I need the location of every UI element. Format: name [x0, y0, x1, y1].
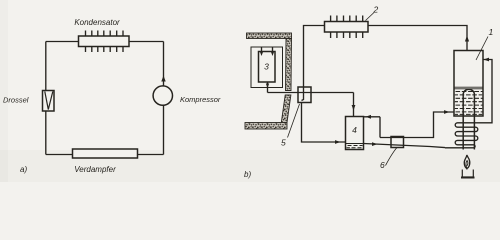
condenser (Kondensator)	[79, 31, 130, 53]
insulated wall right bar (upper, above pipe gap)	[286, 39, 292, 91]
label 5 with leader	[281, 104, 300, 148]
wire: trap 5 down and right into absorber 4 with right arrow	[302, 103, 346, 144]
arrow up on right wire	[161, 76, 165, 82]
wire: upper pipe through heat exchanger 6	[380, 112, 454, 138]
label 2 with leader	[366, 5, 379, 21]
arrow right into generator 1	[444, 110, 450, 114]
svg-text:Verdampfer: Verdampfer	[74, 165, 116, 174]
evaporator box 3	[259, 52, 276, 83]
wire: evaporator outlet to absorber (horizontal through wall and trap 5)	[268, 92, 354, 94]
svg-text:Drossel: Drossel	[3, 96, 29, 105]
pipe into box 3 (right) with down arrow	[271, 47, 274, 56]
insulated wall right bar (lower, below pipe gap)	[281, 95, 291, 123]
cold-box interior outline	[251, 47, 283, 88]
paper shading	[0, 150, 500, 182]
svg-text:1: 1	[489, 27, 494, 37]
wire: loop bottom side	[46, 154, 164, 156]
svg-text:a): a)	[20, 165, 27, 174]
throttle valve (Drossel)	[43, 91, 55, 112]
condenser 2	[325, 16, 369, 39]
compressor (Kompressor) circle	[153, 86, 172, 105]
generator box 1	[454, 51, 483, 117]
wire: loop left side	[45, 42, 47, 155]
svg-text:3: 3	[264, 62, 269, 72]
svg-text:b): b)	[244, 170, 251, 179]
absorber box 4	[346, 117, 364, 150]
wire: loop top side	[46, 41, 164, 43]
label 1 with leader	[476, 27, 494, 60]
pipe into box 3 (left) with down arrow	[260, 47, 263, 56]
wire: down into absorber 4 with down arrow	[352, 93, 356, 117]
arrow up on riser to condenser	[465, 36, 469, 42]
insulated wall top bar	[247, 33, 292, 39]
heat exchanger box 6	[391, 137, 404, 148]
svg-text:5: 5	[281, 138, 286, 148]
bubble pump tubes (inverted U)	[463, 89, 474, 149]
evaporator (Verdampfer)	[73, 149, 138, 158]
svg-text:Kondensator: Kondensator	[74, 18, 120, 27]
wire: lower pipe absorber to coil through heat exchanger 6	[364, 144, 446, 148]
svg-text:Kompressor: Kompressor	[180, 95, 221, 104]
pipe out of box 3 bottom with down arrow	[266, 82, 269, 93]
arrow right on lower pipe	[372, 142, 378, 146]
wire: coil top to generator right side with left arrow	[481, 58, 492, 123]
wire: loop right side	[163, 42, 165, 155]
insulated wall bottom bar	[245, 123, 287, 130]
wire: condenser right stub to riser	[368, 26, 467, 51]
wire: return line into absorber top with left arrow	[364, 115, 381, 138]
trap box 5	[298, 87, 311, 103]
flame	[464, 155, 470, 170]
burner base	[461, 170, 475, 178]
wire: condenser 2 left stub and riser down to trap 5	[302, 26, 325, 101]
label 6 with leader	[380, 148, 397, 171]
svg-text:4: 4	[352, 125, 357, 135]
svg-text:6: 6	[380, 160, 385, 170]
heater coil around tubes	[445, 123, 481, 148]
